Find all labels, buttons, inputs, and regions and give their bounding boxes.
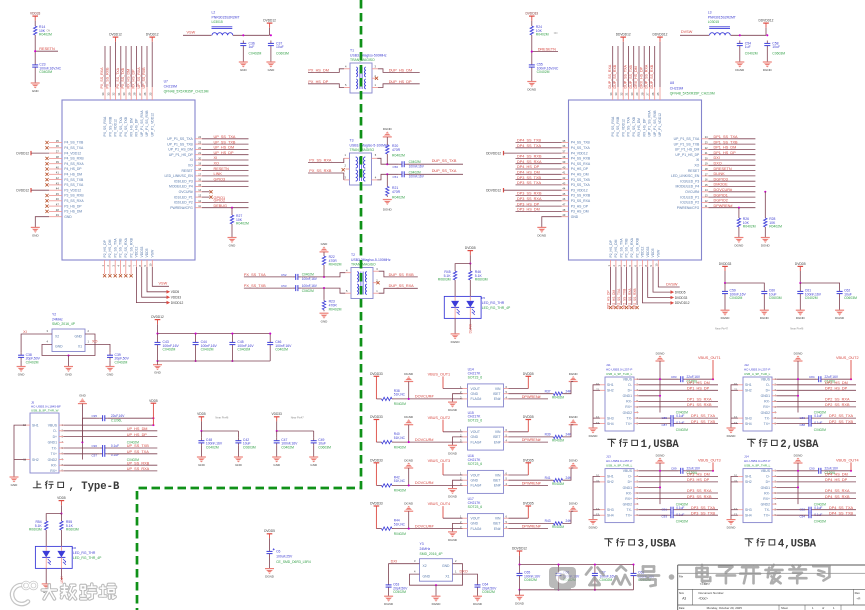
junction [276, 430, 278, 432]
net XI [23, 330, 27, 334]
wire en [509, 484, 549, 486]
capacitor C43 [155, 340, 180, 352]
pin 7 U8 bottom [641, 260, 643, 267]
svg-text:GND1: GND1 [623, 394, 633, 398]
no-connect [45, 199, 48, 202]
svg-text:IO2/LED_P2: IO2/LED_P2 [174, 201, 193, 205]
wire gnd [453, 523, 463, 532]
net DP3_SS_TXA [691, 506, 716, 510]
wire DVDD12 rail [158, 333, 271, 335]
capacitor C91 [661, 506, 684, 513]
LED D5 [444, 296, 511, 319]
wire vin [509, 517, 529, 519]
pin 1 T2 [373, 289, 379, 293]
pin 15 U8 right [676, 183, 709, 189]
wire led left [455, 264, 470, 270]
svg-text:DGND: DGND [384, 602, 394, 606]
svg-text:DP3_SS_TXB: DP3_SS_TXB [517, 176, 542, 180]
power VDD33 [272, 412, 283, 421]
svg-text:RESET: RESET [181, 169, 192, 173]
svg-text:L03015: L03015 [708, 20, 719, 24]
capacitor C38 [18, 352, 41, 364]
svg-text:, Type-B: , Type-B [69, 481, 121, 493]
svg-text:GND: GND [240, 68, 248, 72]
wire [531, 37, 533, 63]
wire DP1_SS_TXA [709, 138, 756, 140]
svg-text:MODE/LED_P4: MODE/LED_P4 [676, 185, 700, 189]
svg-text:XO: XO [92, 340, 98, 344]
svg-text:XO: XO [694, 164, 699, 168]
pin 1 U7 bottom [104, 260, 106, 274]
svg-text:UP_P1_SS_RXA: UP_P1_SS_RXA [648, 110, 652, 137]
net DRX_HS_DM vertical [634, 66, 638, 88]
wire to dgnd [564, 382, 571, 394]
wire [269, 557, 271, 569]
wire DP3_SS_RXB [516, 195, 562, 197]
svg-text:SH2: SH2 [745, 480, 752, 484]
svg-text:C86: C86 [799, 416, 805, 420]
junction [323, 276, 325, 278]
svg-text:SH3: SH3 [745, 508, 752, 512]
power DDVDD12 [759, 19, 774, 28]
svg-text:P3_SS_TXB: P3_SS_TXB [571, 178, 591, 182]
svg-text:XI: XI [23, 330, 27, 334]
pin 3 T1 [372, 65, 378, 69]
svg-text:D-: D- [766, 475, 770, 479]
pin 43 U8 left [562, 181, 591, 187]
svg-text:TX-: TX- [765, 416, 770, 420]
net DP3_HS_DP [517, 202, 540, 206]
pin 27 U7 top [141, 46, 143, 100]
svg-text:DP2_SS_TXA: DP2_SS_TXA [617, 288, 621, 309]
svg-text:PX_SS_TXA: PX_SS_TXA [244, 273, 266, 277]
svg-text:SOT23_6: SOT23_6 [468, 462, 483, 466]
pin name VSW [657, 249, 661, 258]
power DDVDD12 arrow [486, 151, 561, 156]
svg-text:C0603M: C0603M [769, 296, 782, 300]
svg-text:DP2_SS_RXA: DP2_SS_RXA [825, 398, 850, 402]
svg-text:DRESETN: DRESETN [714, 167, 732, 171]
capacitor C59 [722, 289, 746, 301]
junction [269, 333, 271, 335]
text ON [554, 32, 558, 35]
svg-text:C0402M: C0402M [237, 348, 250, 352]
svg-text:51K,NC: 51K,NC [394, 393, 406, 397]
power DVDD12 [151, 315, 164, 324]
net DUP_SS_RXA vertical [608, 64, 612, 88]
pin 26 U7 top [146, 46, 148, 100]
pin number 30 [630, 92, 634, 95]
junction [386, 163, 388, 165]
wire hs dp [777, 481, 857, 483]
wire DOVCUR# [394, 528, 463, 530]
svg-text:X1: X1 [445, 574, 449, 578]
net DP3_SS_TXA [517, 181, 542, 185]
pin name PX_SS_RXB [616, 116, 620, 137]
pin number 26 [143, 92, 147, 95]
svg-text:0.1uF: 0.1uF [111, 444, 119, 448]
svg-text:TX-: TX- [52, 446, 57, 450]
capacitor C50 [392, 160, 424, 169]
svg-text:FLAG#: FLAG# [471, 397, 482, 401]
net DP4_SS_RXA [517, 160, 542, 164]
svg-text:P2_SS_RXA: P2_SS_RXA [630, 237, 634, 257]
wire hs dm [777, 475, 857, 477]
svg-text:C0402M: C0402M [206, 445, 219, 449]
svg-text:DRX_HS_DP: DRX_HS_DP [639, 66, 643, 88]
svg-text:DGND: DGND [796, 316, 806, 320]
net DP3_SS_RXB [517, 192, 542, 196]
svg-text:GPIO2: GPIO2 [214, 199, 226, 203]
wire hs dp [639, 481, 719, 483]
power DVDD33 (group 1) [370, 372, 383, 399]
wire crystal gnd loop [410, 564, 463, 586]
watermark text gongzhonghao [586, 565, 829, 586]
svg-text:RESETN: RESETN [214, 167, 230, 171]
svg-text:VOUT: VOUT [471, 387, 480, 391]
svg-text:RX-: RX- [764, 400, 770, 404]
wire [519, 590, 521, 596]
svg-text:DDVDD12: DDVDD12 [616, 33, 631, 37]
svg-text:R0402M: R0402M [394, 489, 406, 493]
capacitor C97 [91, 451, 119, 458]
pin number 10 [149, 263, 153, 266]
svg-text:P3_SS_TXB: P3_SS_TXB [64, 178, 84, 182]
wire [231, 334, 233, 340]
ground DGND top [794, 351, 804, 361]
svg-text:C94: C94 [799, 515, 805, 519]
resistor R24 [530, 25, 549, 37]
svg-text:SH1: SH1 [32, 423, 39, 427]
net DP2_HS_DM [825, 381, 848, 385]
pin name P2_HS_DM [108, 239, 112, 257]
wire DOVCUR# [394, 484, 463, 486]
pin 11 U7 right [170, 204, 202, 210]
wire en [509, 528, 549, 530]
svg-text:IO3/LED_P3: IO3/LED_P3 [174, 179, 193, 183]
svg-text:DVDD33: DVDD33 [370, 372, 383, 376]
svg-text:C0603M: C0603M [243, 445, 256, 449]
svg-text:DP2_SS_RXB: DP2_SS_RXB [825, 403, 850, 407]
svg-text:R0402M: R0402M [329, 263, 342, 267]
svg-text:DRX_HS_DM: DRX_HS_DM [634, 66, 638, 88]
svg-text:VBUS: VBUS [48, 423, 58, 427]
pin name VDD5 [651, 248, 655, 257]
net RX_HS_DM vertical [126, 69, 130, 89]
pin 41 U8 left [562, 171, 589, 177]
svg-text:SOT23_6: SOT23_6 [468, 419, 483, 423]
pin 17 U8 right [671, 172, 708, 178]
pin number 29 [127, 92, 131, 95]
wire XI [202, 159, 249, 161]
wire [766, 49, 768, 63]
svg-text:VBUS: VBUS [623, 469, 633, 473]
svg-text:SH4: SH4 [745, 514, 752, 518]
svg-text:D-: D- [53, 429, 57, 433]
no-connect [625, 306, 628, 309]
no-connect [636, 306, 639, 309]
svg-text:DP2_SS_TXB: DP2_SS_TXB [829, 420, 854, 424]
resistor R14 [34, 25, 52, 37]
pin number 1 [607, 265, 611, 267]
wire shield [593, 476, 600, 519]
junction [557, 589, 559, 591]
svg-text:DP1_HS_DP: DP1_HS_DP [687, 387, 710, 391]
ground [228, 238, 237, 248]
ground [272, 457, 281, 467]
svg-text:C92: C92 [799, 508, 805, 512]
wire [195, 348, 197, 362]
svg-text:GND: GND [471, 392, 479, 396]
net VBUS_OUT3 [698, 458, 721, 470]
watermark logo camera [549, 567, 576, 591]
svg-text:C51: C51 [392, 175, 398, 179]
svg-text:USB_B_9P_THR_W: USB_B_9P_THR_W [31, 408, 59, 412]
net LINK vertical [60, 575, 64, 583]
power DVDD12 arrow [16, 188, 49, 193]
net DP4_SS_TXB [517, 139, 542, 143]
ground [239, 62, 248, 72]
pin 29 U7 top [130, 46, 132, 100]
svg-text:VDD5: VDD5 [197, 412, 206, 416]
wire [313, 446, 315, 457]
junction [34, 50, 36, 52]
svg-text:PX_SS_RXB: PX_SS_RXB [109, 116, 113, 137]
svg-text:VBUS_OUT3: VBUS_OUT3 [428, 459, 451, 463]
svg-text:RX+: RX+ [625, 497, 632, 501]
wire shield [593, 417, 600, 419]
net DGPIO2 [714, 199, 728, 203]
svg-text:LED_LINK/SC_EN: LED_LINK/SC_EN [671, 174, 700, 178]
svg-text:GND1: GND1 [623, 486, 633, 490]
net DXI [391, 560, 397, 564]
svg-text:UP_P1_VDD12: UP_P1_VDD12 [658, 113, 662, 137]
text Near Pin47 [291, 416, 305, 420]
svg-text:P3_SS_TXA: P3_SS_TXA [64, 183, 84, 187]
ground [835, 310, 845, 320]
svg-text:GND: GND [74, 334, 82, 338]
pin 44 U7 left [49, 187, 81, 193]
ground [515, 595, 525, 605]
svg-text:VDD5: VDD5 [171, 290, 180, 294]
pin 31 U7 top [120, 46, 122, 100]
no-connect [620, 306, 623, 309]
svg-text:VIN: VIN [495, 430, 501, 434]
svg-text:VBUS: VBUS [761, 378, 771, 382]
pin 16 U8 right [680, 178, 708, 184]
svg-text:DGND: DGND [448, 451, 458, 455]
wire [231, 226, 233, 238]
svg-text:SH1: SH1 [607, 383, 614, 387]
svg-text:DOVCUR#: DOVCUR# [415, 395, 434, 399]
pin name UP_P1_SS_RXA [648, 110, 652, 137]
svg-text:DXO: DXO [714, 162, 722, 166]
wire [435, 585, 437, 596]
capacitor C49 [311, 438, 331, 450]
wire vin [509, 474, 529, 476]
wire [269, 28, 271, 36]
wire DUP_SS_TXA [408, 173, 464, 175]
svg-text:GND: GND [11, 483, 19, 487]
wire shield [731, 481, 738, 483]
svg-text:VBUS_OUT1: VBUS_OUT1 [698, 356, 721, 360]
resistor R40 [380, 432, 406, 449]
net DVSW [681, 30, 693, 34]
capacitor C96 [91, 444, 119, 451]
wire vbus out [443, 388, 463, 390]
svg-text:DGND: DGND [448, 495, 458, 499]
svg-text:PX_SS_RXA: PX_SS_RXA [611, 116, 615, 137]
net DP2_SS_RXA [825, 398, 850, 402]
svg-text:C90: C90 [809, 467, 815, 471]
inductor L3 [708, 11, 736, 36]
no-connect [45, 157, 48, 160]
wire [237, 446, 239, 457]
svg-text:ON: ON [554, 32, 558, 35]
wire ss rxb [639, 498, 719, 500]
text Near Pin46 [790, 327, 804, 331]
wire [269, 348, 271, 362]
svg-text:DGND: DGND [721, 316, 731, 320]
port DVDD33 [671, 296, 688, 300]
wire RESETN [202, 170, 249, 172]
svg-text:DDVDD12: DDVDD12 [653, 33, 668, 37]
svg-text:DP3_SS_RXA: DP3_SS_RXA [517, 197, 542, 201]
svg-text:DVDD12: DVDD12 [171, 301, 184, 305]
svg-text:C0603M: C0603M [844, 296, 857, 300]
svg-text:PX_VDD12: PX_VDD12 [621, 119, 625, 136]
svg-text:C0402M: C0402M [730, 296, 743, 300]
svg-text:DGND: DGND [537, 233, 547, 237]
pin 2 T2 [373, 278, 378, 282]
svg-text:DP1_HS_DM: DP1_HS_DM [714, 146, 737, 150]
svg-text:D-: D- [628, 383, 632, 387]
regulator U17 [460, 497, 508, 536]
svg-text:PWREN#/CFG: PWREN#/CFG [677, 206, 700, 210]
wire c95 gnd side [82, 418, 96, 442]
text Near Pin47 [715, 327, 729, 331]
svg-text:P3_HS_DM: P3_HS_DM [64, 210, 82, 214]
svg-text:R0402M: R0402M [552, 395, 564, 399]
svg-text:DVDD5: DVDD5 [523, 502, 534, 506]
svg-text:DVDD33: DVDD33 [526, 12, 539, 16]
pin number 6 [633, 265, 637, 267]
wire [594, 579, 596, 590]
svg-text:USB3.0MagIso-5-100MHz: USB3.0MagIso-5-100MHz [350, 143, 390, 147]
wire UP_SS_TXB [108, 447, 158, 449]
svg-text:0.1uF: 0.1uF [676, 414, 684, 418]
svg-text:DVSW: DVSW [681, 30, 693, 34]
svg-text:VBUS_OUT3: VBUS_OUT3 [698, 458, 721, 462]
ground [448, 489, 458, 499]
label C0402M [676, 411, 688, 415]
svg-text:UP_SS_RXA: UP_SS_RXA [137, 67, 141, 89]
svg-text:DGND: DGND [527, 88, 537, 92]
svg-text:VIN: VIN [495, 517, 501, 521]
svg-text:D6: D6 [72, 546, 76, 550]
wire tx+ [64, 453, 100, 455]
net PX_SS_RXA vertical [100, 67, 104, 89]
wire GPIO2 [202, 201, 249, 203]
capacitor C45 [229, 340, 254, 352]
svg-text:1uF: 1uF [249, 45, 255, 49]
ground [448, 445, 458, 455]
svg-text:UP_P1_HS_DM: UP_P1_HS_DM [675, 148, 700, 152]
svg-text:DDVDD12: DDVDD12 [486, 189, 501, 193]
svg-text:DP1_HS_DM: DP1_HS_DM [687, 381, 710, 385]
title block text [679, 575, 861, 610]
pin number 33 [614, 92, 618, 95]
net DP1_SS_RXA [687, 398, 712, 402]
capacitor C95 [91, 414, 125, 422]
svg-text:PX_VDD12: PX_VDD12 [114, 119, 118, 136]
net DP3_HS_DP [687, 478, 710, 482]
port VDD5 [167, 290, 180, 294]
wire en [509, 398, 549, 400]
svg-text:RX_HS_DP: RX_HS_DP [132, 69, 136, 89]
pin number 8 [644, 265, 648, 267]
wire C52 to T2 [301, 273, 345, 277]
svg-text:DGND: DGND [569, 372, 579, 376]
no-connect [376, 281, 379, 284]
wire [454, 282, 456, 297]
svg-text:VDD33: VDD33 [646, 246, 650, 257]
no-connect [45, 141, 48, 144]
net DP2_SS_RXA vertical [628, 288, 632, 309]
wire [519, 556, 521, 565]
svg-text:UP_SS_TXA: UP_SS_TXA [214, 135, 236, 139]
net PX_SS_TXA [244, 273, 266, 277]
svg-text:T2: T2 [351, 253, 355, 257]
svg-text:RESET: RESET [688, 169, 699, 173]
svg-text:TX+: TX+ [764, 514, 770, 518]
svg-text:Date:: Date: [679, 606, 685, 610]
ground [448, 532, 458, 542]
net DP4_SS_RXB [517, 155, 542, 159]
svg-text:TX-: TX- [627, 416, 632, 420]
net DUP_SS_TXA vertical [624, 65, 628, 89]
svg-text:DP4_HS_DM: DP4_HS_DM [517, 171, 540, 175]
pin 46 U7 left [49, 197, 84, 203]
svg-text:DVDD12: DVDD12 [151, 315, 164, 319]
connector J13 [596, 454, 638, 522]
junction [594, 563, 596, 565]
connector J5 [23, 401, 63, 474]
svg-text:DP1_HS_DP: DP1_HS_DP [714, 151, 737, 155]
wire gnd1 [777, 395, 799, 397]
svg-text:GND: GND [79, 394, 87, 398]
svg-text:DGND: DGND [404, 458, 414, 462]
svg-text:PX_SS_TXB: PX_SS_TXB [632, 116, 636, 136]
svg-text:ISET: ISET [493, 392, 501, 396]
wire [276, 421, 278, 431]
svg-text:USB3.0MagIso-5-100MHz: USB3.0MagIso-5-100MHz [351, 258, 391, 262]
wire DP2_SS_TXA [620, 267, 622, 305]
net DUP_SS_RXA [389, 284, 415, 288]
pin 16 U7 right [174, 178, 202, 184]
pin 8 U8 bottom [647, 260, 649, 267]
junction [659, 395, 661, 397]
pin 9 U7 bottom [146, 260, 148, 267]
junction [850, 470, 852, 472]
pin 40 U7 left [49, 165, 82, 171]
pin number 6 [127, 265, 131, 267]
net VBUS_OUT4 [836, 458, 859, 470]
svg-text:PNR3015S2R2MT: PNR3015S2R2MT [212, 15, 240, 19]
pin 15 U7 right [169, 183, 202, 189]
wire [542, 217, 562, 228]
wire pin15 [202, 186, 249, 188]
